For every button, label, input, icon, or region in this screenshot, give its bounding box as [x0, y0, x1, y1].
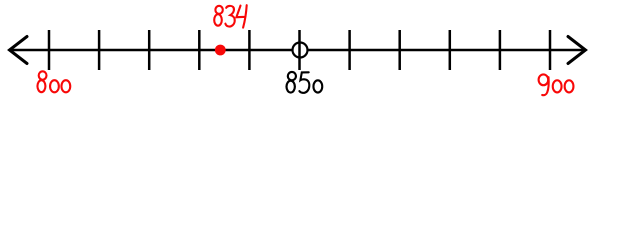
- tick 810: [98, 30, 101, 70]
- tick 850: [298, 30, 301, 70]
- right arrowhead: [568, 37, 586, 64]
- tick 900: [549, 30, 552, 70]
- tick 800: [48, 30, 51, 70]
- label 834 digit 4: [236, 5, 246, 27]
- label 800 digit 0 (second): [61, 80, 70, 92]
- label 834 digit 3: [225, 6, 234, 27]
- label 850 digit 0: [313, 80, 322, 92]
- label 834 digit 8: [214, 6, 223, 26]
- red point at 834: [215, 45, 226, 56]
- tick 880: [449, 30, 452, 70]
- label 900 digit 9: [539, 74, 549, 95]
- open circle at 850: [293, 43, 308, 58]
- label 900 digit 0 (first): [553, 80, 562, 92]
- tick 820: [148, 30, 151, 70]
- number line main axis: [9, 49, 586, 52]
- tick 860: [348, 30, 351, 70]
- label 800 digit 0 (first): [50, 80, 59, 92]
- label 900 digit 0 (second): [565, 80, 574, 92]
- tick 830: [198, 30, 201, 70]
- tick 870: [398, 30, 401, 70]
- tick 840: [248, 30, 251, 70]
- tick 890: [499, 30, 502, 70]
- label 850 digit 8: [287, 72, 296, 93]
- label 800 digit 8: [37, 71, 46, 92]
- label 850 digit 5: [299, 72, 309, 93]
- left arrowhead: [10, 37, 28, 64]
